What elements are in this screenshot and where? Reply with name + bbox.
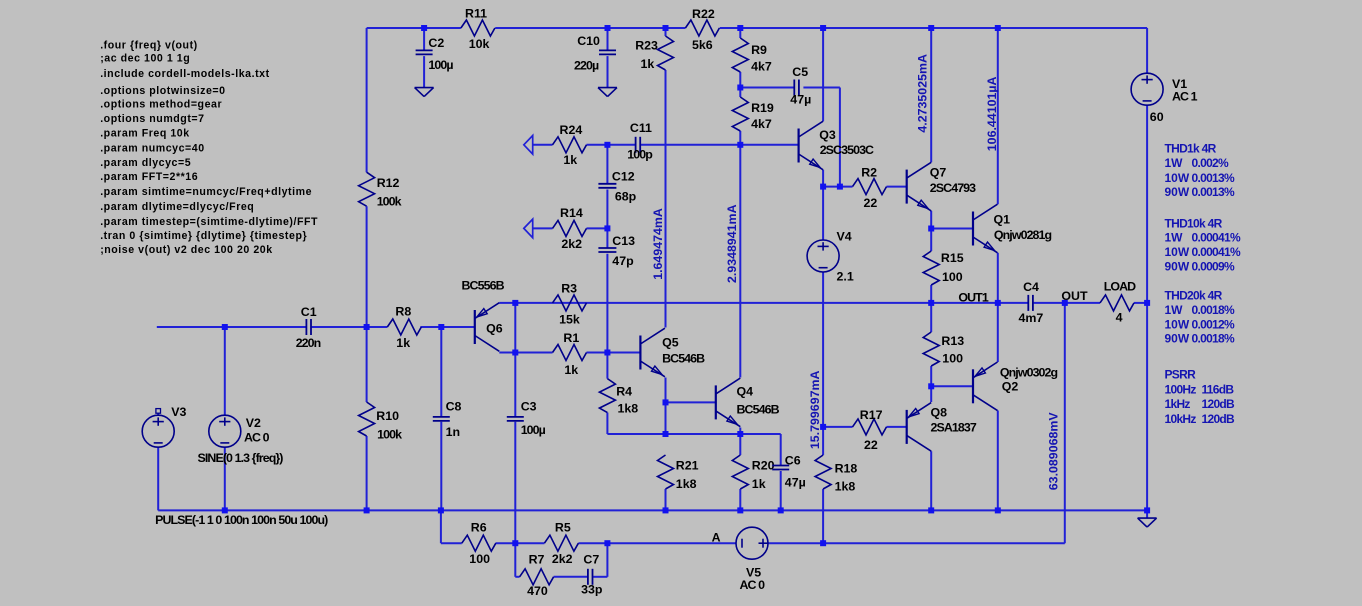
svg-text:BC556B: BC556B [462, 279, 505, 293]
resistor LOAD [1100, 279, 1136, 324]
resistor R12 [359, 172, 402, 208]
svg-text:R11: R11 [465, 6, 487, 20]
svg-text:4: 4 [1116, 310, 1123, 324]
wire negative rail [158, 509, 1147, 511]
svg-text:.include cordell-models-lka.tx: .include cordell-models-lka.txt [100, 68, 270, 80]
svg-text:2k2: 2k2 [561, 237, 582, 251]
svg-text:R12: R12 [377, 176, 400, 190]
wire C11 row [533, 144, 799, 146]
svg-text:R10: R10 [376, 409, 399, 423]
svg-text:100: 100 [469, 552, 490, 566]
resistor R14 [524, 206, 587, 251]
svg-text:0.0012%: 0.0012% [1192, 317, 1236, 331]
svg-text:120dB: 120dB [1202, 412, 1236, 426]
transistor Q8 [907, 403, 977, 452]
wire x665 column [665, 28, 667, 510]
svg-text:R7: R7 [529, 553, 545, 567]
voltage source V3 [142, 405, 186, 447]
resistor R10 [359, 402, 402, 441]
svg-text:R17: R17 [860, 408, 883, 422]
svg-text:0.00041%: 0.00041% [1192, 231, 1241, 245]
resistor R7 [520, 553, 554, 599]
capacitor C6 [772, 454, 806, 490]
svg-text:V2: V2 [246, 416, 261, 430]
svg-text:C7: C7 [583, 553, 599, 567]
resistor R8 [387, 305, 421, 350]
wire x931 column [930, 28, 932, 510]
wire Q8 base row [823, 426, 907, 428]
transistor Q3 [799, 121, 874, 170]
voltage source V5 [736, 527, 768, 592]
capacitor C5 [790, 65, 811, 106]
svg-text:BC546B: BC546B [662, 352, 705, 366]
svg-text:60: 60 [1150, 110, 1164, 124]
svg-text:2SC3503C: 2SC3503C [820, 143, 874, 157]
capacitor C13 [598, 234, 635, 268]
svg-text:Q1: Q1 [994, 213, 1011, 227]
svg-text:0.002%: 0.002% [1192, 156, 1230, 170]
svg-text:.options plotwinsize=0: .options plotwinsize=0 [100, 85, 225, 97]
svg-text:10W: 10W [1165, 317, 1190, 331]
svg-text:470: 470 [527, 584, 548, 598]
capacitor C10 [574, 34, 616, 72]
svg-text:R6: R6 [471, 520, 487, 534]
svg-text:100Hz: 100Hz [1165, 382, 1197, 396]
resistor R5 [544, 520, 578, 566]
wire x823 column [822, 28, 824, 543]
svg-text:100µ: 100µ [428, 58, 453, 72]
label current 106.44101uA [985, 76, 999, 151]
wire R6 leg [440, 510, 442, 543]
wire V2 column [224, 327, 226, 510]
svg-text:C2: C2 [428, 36, 444, 50]
svg-text:10kHz: 10kHz [1165, 412, 1197, 426]
svg-text:47µ: 47µ [785, 476, 806, 490]
svg-text:22: 22 [864, 196, 878, 210]
resistor R23 [635, 36, 673, 71]
svg-text:.param dlycyc=5: .param dlycyc=5 [100, 157, 191, 169]
voltage source V1 [1131, 73, 1198, 124]
wire top rail [367, 27, 1148, 29]
wire Q4 base [666, 401, 716, 403]
transistor Q4 [716, 378, 780, 427]
voltage source V4 [807, 230, 854, 284]
svg-text:;noise v(out) v2 dec 100 20 20: ;noise v(out) v2 dec 100 20 20k [100, 244, 273, 256]
label current 1.649474mA [651, 208, 665, 280]
resistor R15 [923, 251, 964, 285]
capacitor C12 [598, 170, 636, 204]
resistor R17 [853, 408, 887, 452]
svg-text:R24: R24 [560, 123, 583, 137]
svg-text:100p: 100p [627, 148, 653, 162]
wire R14 row [533, 227, 608, 229]
svg-text:100: 100 [942, 270, 963, 284]
node OUT [1061, 289, 1088, 303]
svg-text:.param numcyc=40: .param numcyc=40 [100, 143, 205, 155]
resistor R21 [658, 455, 699, 491]
svg-text:R14: R14 [560, 206, 583, 220]
label current 4.2735025mA [916, 54, 930, 133]
svg-text:15k: 15k [559, 312, 580, 326]
svg-text:Qnjw0302g: Qnjw0302g [1000, 366, 1058, 380]
svg-text:;ac dec 100 1 1g: ;ac dec 100 1 1g [100, 53, 190, 65]
svg-text:.options method=gear: .options method=gear [100, 99, 222, 111]
svg-text:Q6: Q6 [486, 321, 503, 335]
resistor R13 [923, 332, 964, 366]
wire C6 column [780, 434, 782, 510]
resistor R22 [685, 7, 719, 52]
svg-text:C8: C8 [446, 399, 462, 413]
svg-text:.param simtime=numcyc/Freq+dly: .param simtime=numcyc/Freq+dlytime [100, 186, 312, 198]
resistor R20 [732, 455, 774, 491]
wire C3 column [514, 303, 516, 543]
svg-text:Q7: Q7 [930, 165, 947, 179]
svg-text:PULSE(-1 1 0 100n 100n 50u 100: PULSE(-1 1 0 100n 100n 50u 100u) [155, 513, 328, 527]
svg-text:BC546B: BC546B [737, 403, 780, 417]
resistor R18 [815, 455, 857, 494]
svg-text:100k: 100k [377, 427, 402, 441]
svg-text:V3: V3 [171, 405, 186, 419]
svg-text:R22: R22 [692, 7, 715, 21]
svg-text:4m7: 4m7 [1019, 311, 1044, 325]
svg-text:R4: R4 [616, 385, 632, 399]
capacitor C2 [416, 36, 454, 72]
svg-text:R13: R13 [941, 334, 964, 348]
svg-text:10W: 10W [1165, 245, 1190, 259]
svg-text:106.44101µA: 106.44101µA [985, 76, 999, 151]
svg-text:120dB: 120dB [1202, 397, 1236, 411]
svg-text:C4: C4 [1023, 280, 1039, 294]
svg-text:116dB: 116dB [1202, 382, 1235, 396]
svg-text:1n: 1n [446, 425, 460, 439]
wire x998 column [997, 28, 999, 510]
svg-text:1W: 1W [1165, 231, 1184, 245]
svg-text:1k8: 1k8 [676, 477, 697, 491]
svg-text:R23: R23 [635, 39, 658, 53]
svg-text:C1: C1 [301, 305, 317, 319]
capacitor C8 [433, 399, 462, 439]
svg-text:.param dlytime=dlycyc/Freq: .param dlytime=dlycyc/Freq [100, 201, 254, 213]
svg-text:47µ: 47µ [790, 93, 811, 107]
wire Q2 base [931, 385, 973, 387]
svg-text:.options numdgt=7: .options numdgt=7 [100, 113, 204, 125]
svg-text:PSRR: PSRR [1165, 367, 1197, 381]
voltage source V2 [198, 415, 284, 465]
wire OUT1 row [499, 302, 1147, 304]
wire C8 column [440, 327, 442, 510]
wire R7 legs [515, 543, 607, 577]
capacitor C1 [296, 305, 321, 350]
svg-text:10k: 10k [469, 37, 490, 51]
wire node A row [441, 542, 1065, 544]
capacitor C3 [507, 399, 546, 436]
text PULSE [155, 513, 328, 527]
svg-text:2.1: 2.1 [837, 269, 854, 283]
svg-text:1k: 1k [641, 57, 655, 71]
svg-text:R8: R8 [395, 305, 411, 319]
capacitor C7 [581, 553, 603, 597]
svg-text:0.00041%: 0.00041% [1192, 245, 1241, 259]
svg-text:Q3: Q3 [819, 128, 836, 142]
svg-text:220n: 220n [296, 336, 321, 350]
wire input row [157, 326, 475, 328]
node OUT1 [958, 291, 988, 305]
svg-text:2k2: 2k2 [552, 552, 573, 566]
wire Q3 emitter row [823, 186, 907, 188]
svg-text:R19: R19 [751, 101, 774, 115]
svg-text:1W: 1W [1165, 156, 1184, 170]
svg-text:1k8: 1k8 [835, 480, 856, 494]
svg-text:1.649474mA: 1.649474mA [651, 208, 665, 280]
svg-text:Q2: Q2 [1002, 380, 1019, 394]
label current 2.9348941mA [725, 204, 739, 283]
svg-text:90W: 90W [1165, 260, 1190, 274]
resistor R2 [853, 165, 887, 210]
svg-text:Qnjw0281g: Qnjw0281g [994, 228, 1052, 242]
resistor R9 [732, 38, 772, 74]
svg-text:0.0018%: 0.0018% [1192, 303, 1236, 317]
svg-text:C13: C13 [612, 234, 635, 248]
svg-text:4.2735025mA: 4.2735025mA [916, 54, 930, 133]
svg-text:R18: R18 [835, 462, 858, 476]
transistor Q5 [640, 328, 705, 377]
svg-text:OUT1: OUT1 [958, 291, 988, 305]
resistor R24 [524, 123, 587, 167]
svg-text:R5: R5 [555, 520, 571, 534]
svg-text:Q4: Q4 [737, 385, 754, 399]
svg-text:2SC4793: 2SC4793 [930, 181, 976, 195]
svg-text:AC 0: AC 0 [740, 578, 766, 592]
svg-text:A: A [712, 530, 721, 544]
svg-text:V4: V4 [837, 230, 852, 244]
svg-text:10W: 10W [1165, 171, 1190, 185]
svg-text:68p: 68p [615, 190, 637, 204]
wire left column x366 [366, 28, 368, 510]
svg-text:C10: C10 [577, 34, 600, 48]
ground C10 [598, 88, 617, 97]
svg-text:THD1k 4R: THD1k 4R [1165, 142, 1217, 156]
svg-text:.param FFT=2**16: .param FFT=2**16 [100, 171, 198, 183]
transistor Q7 [907, 162, 976, 211]
svg-text:100: 100 [942, 352, 963, 366]
svg-text:.param Freq 10k: .param Freq 10k [100, 128, 190, 140]
svg-text:100k: 100k [377, 194, 402, 208]
wire right column x1147 [1146, 28, 1148, 518]
svg-text:R3: R3 [561, 281, 577, 295]
svg-text:C12: C12 [612, 170, 635, 184]
svg-text:1kHz: 1kHz [1165, 397, 1191, 411]
svg-text:47p: 47p [612, 254, 634, 268]
svg-text:R9: R9 [751, 43, 767, 57]
svg-text:0.0009%: 0.0009% [1192, 260, 1236, 274]
svg-text:LOAD: LOAD [1104, 279, 1136, 293]
svg-text:THD10k 4R: THD10k 4R [1165, 217, 1223, 231]
ground C2 [415, 88, 434, 97]
svg-text:R15: R15 [941, 251, 964, 265]
svg-text:4k7: 4k7 [751, 60, 772, 74]
svg-text:SINE(0 1.3 {freq}): SINE(0 1.3 {freq}) [198, 451, 284, 465]
svg-text:1k: 1k [564, 363, 578, 377]
capacitor C4 [1019, 280, 1044, 325]
ground main [1138, 518, 1157, 527]
svg-text:5k6: 5k6 [692, 38, 713, 52]
svg-text:0.0018%: 0.0018% [1192, 332, 1236, 346]
svg-text:1k: 1k [563, 153, 577, 167]
resistor R1 [553, 331, 587, 377]
svg-text:R1: R1 [563, 331, 579, 345]
svg-text:1k8: 1k8 [618, 402, 639, 416]
resistor R3 [553, 281, 587, 326]
wire C5 row [740, 87, 840, 89]
transistor Q1 [973, 204, 1052, 253]
svg-text:0.0013%: 0.0013% [1192, 171, 1236, 185]
svg-text:R2: R2 [861, 165, 877, 179]
wire x740 column [739, 28, 741, 510]
resistor R6 [462, 520, 496, 566]
svg-text:4k7: 4k7 [751, 117, 772, 131]
wire C2 stem [423, 28, 425, 88]
svg-text:C6: C6 [785, 454, 801, 468]
svg-text:Q5: Q5 [662, 335, 679, 349]
svg-text:.four {freq} v(out): .four {freq} v(out) [100, 39, 198, 51]
svg-text:33p: 33p [581, 582, 603, 596]
resistor R19 [732, 97, 774, 131]
svg-text:AC 0: AC 0 [244, 431, 270, 445]
svg-text:.param timestep=(simtime-dlyti: .param timestep=(simtime-dlytime)/FFT [100, 216, 318, 228]
wire R4 row [607, 433, 780, 435]
transistor Q6 [462, 279, 505, 352]
text directives [100, 39, 318, 256]
text THD PSRR block [1165, 142, 1241, 426]
svg-text:2SA1837: 2SA1837 [931, 420, 977, 434]
svg-text:R21: R21 [676, 459, 699, 473]
svg-text:1k: 1k [752, 477, 766, 491]
svg-text:15.799697mA: 15.799697mA [808, 371, 822, 450]
label current 15.799697mA [808, 371, 822, 450]
svg-text:2.9348941mA: 2.9348941mA [725, 204, 739, 283]
wire C10 stem [607, 28, 609, 88]
svg-text:THD20k 4R: THD20k 4R [1165, 289, 1223, 303]
wire R7 C7 row [515, 576, 607, 578]
svg-text:63.089068mV: 63.089068mV [1046, 412, 1060, 491]
svg-text:90W: 90W [1165, 332, 1190, 346]
wire V3 column [157, 413, 159, 510]
label voltage 63.089068mV [1046, 412, 1060, 491]
svg-text:220µ: 220µ [574, 59, 599, 73]
wire x607 column [606, 145, 608, 434]
wire C5 drop [839, 88, 841, 187]
svg-text:C5: C5 [792, 65, 808, 79]
svg-text:100µ: 100µ [521, 423, 546, 437]
svg-text:C3: C3 [521, 399, 537, 413]
svg-text:AC 1: AC 1 [1172, 90, 1198, 104]
wire Q1 base [931, 228, 973, 230]
resistor R11 [461, 6, 495, 51]
node A [712, 530, 721, 544]
wire OUT drop [1064, 303, 1066, 543]
resistor R4 [599, 379, 638, 416]
svg-text:.tran 0 {simtime} {dlytime} {t: .tran 0 {simtime} {dlytime} {timestep} [100, 230, 307, 242]
svg-text:C11: C11 [630, 121, 652, 135]
transistor Q2 [973, 362, 1058, 411]
capacitor C11 [627, 121, 653, 161]
svg-text:1k: 1k [396, 336, 410, 350]
svg-text:90W: 90W [1165, 185, 1190, 199]
svg-text:22: 22 [864, 438, 878, 452]
wire R1 row [499, 352, 640, 354]
svg-text:R20: R20 [752, 459, 775, 473]
svg-text:Q8: Q8 [931, 406, 948, 420]
svg-text:0.0013%: 0.0013% [1192, 185, 1236, 199]
svg-text:1W: 1W [1165, 303, 1184, 317]
